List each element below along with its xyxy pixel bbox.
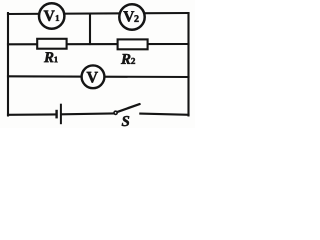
voltmeter V1 [39,3,64,28]
label S [122,116,129,126]
battery [57,104,61,125]
wire right rail [187,13,189,116]
wire bottom left to battery [8,113,56,116]
wire resistor row [8,43,189,45]
resistor R1 [37,39,66,62]
voltmeter V2 [119,4,144,29]
switch lever [117,104,139,112]
label R1 [44,52,53,62]
wire middle vertical node [89,14,91,44]
switch pivot [114,111,117,114]
switch S [114,104,140,126]
wire battery to switch [62,112,114,115]
wire left rail [7,13,9,116]
battery short plate [55,110,57,119]
wire top row [8,13,189,14]
wire switch to bottom right [140,114,188,115]
voltmeter V [82,65,105,88]
wire voltmeter V row [8,75,189,78]
label R2 [121,54,130,64]
battery long plate [60,104,62,125]
resistor R2 [118,39,148,64]
